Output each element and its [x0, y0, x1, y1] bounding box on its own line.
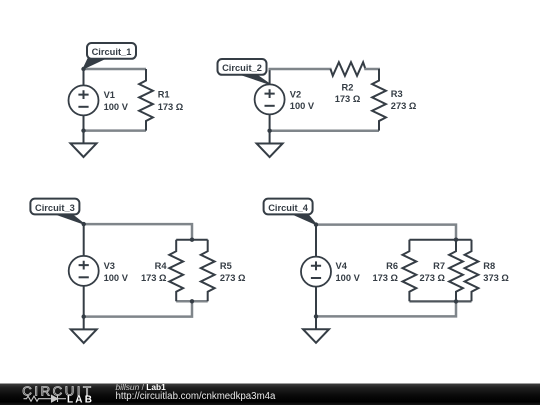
svg-text:R7: R7 — [433, 261, 445, 271]
ground node junction dot circuit 2 — [267, 129, 271, 133]
wire: V4 bottom stub — [315, 286, 317, 317]
value label V3 100 V — [104, 261, 129, 283]
wire: bottom wire R1 to ground node — [84, 129, 147, 132]
wire: V4 top stub — [315, 225, 317, 258]
resistor R5 — [201, 240, 215, 302]
wire: parallel top bus circuit 4 — [409, 239, 471, 241]
svg-text:273 Ω: 273 Ω — [391, 101, 417, 111]
svg-text:100 V: 100 V — [336, 273, 361, 283]
svg-text:V2: V2 — [290, 89, 301, 99]
svg-text:Circuit_2: Circuit_2 — [222, 63, 262, 73]
voltage source V4 — [301, 257, 331, 287]
top bus junction dot circuit 3 — [190, 238, 194, 242]
CircuitLab logo squiggle resistor and diode — [24, 395, 67, 402]
wire: bottom bus down to bottom wire circuit 3 — [84, 301, 192, 316]
label callout Circuit_4 — [264, 199, 316, 225]
svg-text:V1: V1 — [104, 90, 115, 100]
svg-text:173 Ω: 173 Ω — [141, 273, 167, 283]
label callout Circuit_1 — [84, 43, 137, 69]
svg-text:Circuit_1: Circuit_1 — [92, 47, 132, 57]
value label V1 100 V — [104, 90, 129, 112]
wire: V3 bottom stub — [83, 285, 85, 317]
wire: V3 top stub — [83, 224, 85, 256]
value label V4 100 V — [336, 261, 361, 283]
ground symbol circuit 3 — [71, 317, 97, 343]
svg-text:100 V: 100 V — [104, 273, 129, 283]
top bus junction dot circuit 4 — [454, 238, 458, 242]
value label V2 100 V — [290, 89, 315, 111]
resistor R4 — [169, 240, 183, 302]
value label R3 273 ohm — [391, 89, 417, 111]
value label R6 173 ohm — [372, 261, 398, 283]
node A1 junction dot — [81, 67, 85, 71]
svg-text:R6: R6 — [386, 261, 398, 271]
bottom bus junction dot circuit 3 — [190, 299, 194, 303]
svg-text:Circuit_4: Circuit_4 — [268, 203, 309, 213]
resistor R1 — [139, 69, 153, 131]
value label R1 173 ohm — [158, 90, 184, 112]
svg-text:100 V: 100 V — [104, 102, 129, 112]
label callout Circuit_3 — [30, 199, 83, 224]
svg-text:173 Ω: 173 Ω — [335, 94, 361, 104]
svg-text:V4: V4 — [336, 261, 348, 271]
svg-text:R4: R4 — [155, 261, 168, 271]
wire: parallel bottom bus circuit 3 — [176, 300, 208, 303]
svg-text:V3: V3 — [104, 261, 115, 271]
resistor R3 — [372, 69, 386, 131]
value label R2 173 ohm — [335, 82, 361, 104]
svg-text:R1: R1 — [158, 90, 170, 100]
svg-text:R3: R3 — [391, 89, 403, 99]
voltage source V2 — [255, 84, 285, 114]
ground symbol circuit 2 — [257, 131, 283, 157]
wire: V2 bottom stub — [269, 114, 271, 131]
wire: parallel bottom bus circuit 4 — [409, 300, 471, 302]
voltage source V3 — [69, 256, 99, 286]
ground node junction dot circuit 4 — [314, 314, 318, 318]
value label R4 173 ohm — [141, 261, 167, 283]
svg-text:R8: R8 — [483, 261, 495, 271]
resistor R7 — [449, 240, 463, 302]
wire: V2 top stub to corner — [269, 68, 271, 86]
svg-text:R2: R2 — [342, 82, 354, 92]
svg-text:273 Ω: 273 Ω — [419, 273, 445, 283]
wire: V1 bottom stub — [83, 115, 85, 131]
value label R7 273 ohm — [419, 261, 445, 283]
resistor R2 — [331, 62, 366, 76]
svg-text:100 V: 100 V — [290, 101, 315, 111]
wire: bottom wire R3 to ground node circuit 2 — [270, 129, 379, 132]
ground node junction dot circuit 3 — [82, 314, 86, 318]
wire: top wire node A1 to R1 top — [84, 68, 147, 71]
wire: parallel top bus circuit 3 — [176, 239, 208, 241]
svg-text:173 Ω: 173 Ω — [372, 273, 398, 283]
svg-text:R5: R5 — [220, 261, 232, 271]
bottom bus junction dot circuit 4 — [454, 299, 458, 303]
wire: node A4 right and down to parallel top bus — [316, 225, 456, 240]
wire: node A3 right and down to parallel top bus — [84, 224, 192, 240]
ground symbol circuit 1 — [71, 131, 97, 157]
svg-text:LAB: LAB — [67, 394, 94, 405]
svg-text:http://circuitlab.com/cnkmedkp: http://circuitlab.com/cnkmedkpa3m4a — [116, 391, 277, 402]
resistor R8 — [465, 240, 479, 302]
node A3 junction dot — [82, 222, 86, 226]
voltage source V1 — [69, 85, 99, 115]
ground symbol circuit 4 — [303, 316, 329, 342]
wire: corner to R2 left — [269, 68, 332, 71]
value label R5 273 ohm — [220, 261, 246, 283]
svg-text:Circuit_3: Circuit_3 — [35, 203, 75, 213]
wire: R2 right lead to corner — [364, 68, 380, 71]
svg-text:373 Ω: 373 Ω — [483, 273, 509, 283]
value label R8 373 ohm — [483, 261, 509, 283]
ground node junction dot circuit 1 — [81, 128, 85, 132]
resistor R6 — [403, 240, 417, 302]
wire: bottom bus down to bottom wire circuit 4 — [316, 301, 456, 316]
footer background bar — [0, 384, 540, 405]
wire: V1 top stub — [83, 69, 85, 86]
label callout Circuit_2 — [218, 59, 270, 84]
svg-text:273 Ω: 273 Ω — [220, 273, 246, 283]
svg-text:173 Ω: 173 Ω — [158, 102, 184, 112]
node A4 junction dot — [314, 222, 318, 226]
